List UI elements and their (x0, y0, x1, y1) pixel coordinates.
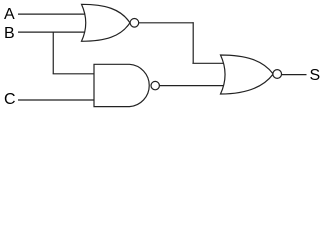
svg-text:B: B (4, 25, 15, 42)
wire B branch vertical (52, 32, 54, 74)
wire B branch horizontal to U2 input (53, 73, 96, 75)
wire B to U1 input (18, 31, 85, 33)
wire C to U2 input (18, 99, 96, 101)
svg-text:S: S (310, 67, 321, 84)
svg-text:C: C (4, 91, 16, 108)
wire U3 output to S (282, 74, 307, 76)
NAND gate U2 output bubble (151, 81, 159, 89)
wire vertical down from U1 output (192, 22, 194, 63)
NOR gate U3 body (221, 55, 274, 94)
wire A to U1 input (18, 13, 85, 15)
svg-text:A: A (4, 6, 15, 23)
wire horizontal to U3 top input (192, 62, 226, 64)
NAND gate U2 body (94, 64, 149, 106)
wire U1 output horizontal (139, 22, 194, 24)
wire U2 output to U3 bottom input (159, 85, 226, 87)
NOR gate U3 output bubble (273, 70, 282, 79)
NOR gate U1 output bubble (130, 19, 139, 28)
NOR gate U1 body (82, 4, 130, 41)
